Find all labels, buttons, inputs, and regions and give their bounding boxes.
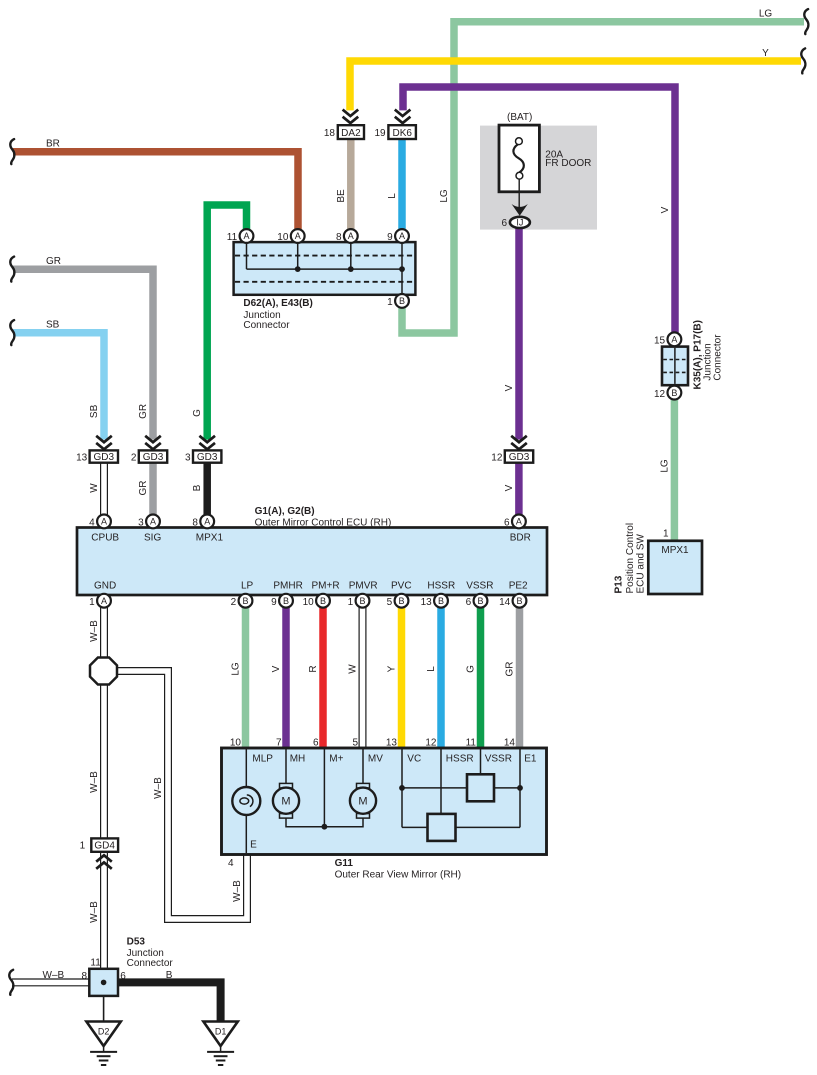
svg-text:W–B: W–B [89, 771, 100, 793]
connector GD3 #3 [185, 450, 221, 463]
svg-text:B: B [399, 296, 405, 306]
svg-text:A: A [101, 517, 107, 527]
label P13 Position Control ECU and SW [614, 523, 647, 594]
pin 3 A SIG [138, 515, 160, 529]
svg-text:MH: MH [290, 754, 306, 765]
svg-text:13: 13 [386, 738, 398, 749]
svg-text:8: 8 [192, 518, 198, 529]
svg-text:VSSR: VSSR [466, 581, 493, 592]
svg-text:V: V [271, 665, 282, 672]
arrow into GD3 #1 [96, 436, 112, 450]
svg-text:MPX1: MPX1 [196, 532, 224, 543]
svg-text:BR: BR [46, 138, 60, 149]
ground D1 [203, 1022, 237, 1066]
wire LG (K35 pin 12B to P13 MPX1) [671, 397, 679, 542]
svg-text:SIG: SIG [144, 532, 161, 543]
wire W (GD3 #1 to ECU pin 4A CPUB) [100, 463, 108, 515]
svg-text:9: 9 [271, 597, 277, 608]
svg-text:A: A [671, 335, 677, 345]
break symbol BR left [10, 139, 14, 164]
svg-text:3: 3 [138, 518, 144, 529]
svg-text:D53: D53 [127, 937, 146, 948]
svg-text:10: 10 [303, 597, 315, 608]
svg-text:E1: E1 [524, 754, 537, 765]
svg-text:Connector: Connector [243, 320, 290, 331]
svg-text:5: 5 [352, 738, 358, 749]
connector GD4 [80, 838, 118, 851]
wire MV motor to M+ node [324, 818, 363, 827]
svg-text:12: 12 [425, 738, 437, 749]
wire VC to relay1 [402, 787, 467, 789]
wire D53 to ground D2 [103, 996, 105, 1021]
svg-text:A: A [399, 231, 405, 241]
pin 1 B PMVR [348, 594, 370, 608]
svg-text:B: B [438, 596, 444, 606]
pin 11 A D62 [227, 229, 254, 243]
pin 13 B HSSR [421, 594, 448, 608]
svg-text:GND: GND [94, 581, 116, 592]
svg-text:19: 19 [374, 128, 386, 139]
svg-text:G: G [192, 409, 203, 417]
svg-text:4: 4 [228, 858, 234, 869]
pin 4 A CPUB [89, 515, 111, 529]
svg-text:MV: MV [368, 754, 383, 765]
G11 internal labels [252, 754, 536, 765]
wire M+ internal [323, 749, 325, 827]
junction connector D62(A) E43(B) [234, 242, 416, 295]
wire SB (to GD3 #1) [13, 333, 104, 440]
node VC [399, 785, 405, 791]
svg-text:LG: LG [231, 662, 242, 676]
svg-text:L: L [426, 666, 437, 672]
pin 5 B PVC [387, 594, 409, 608]
svg-text:2: 2 [231, 597, 237, 608]
svg-text:VSSR: VSSR [485, 754, 512, 765]
svg-text:5: 5 [387, 597, 393, 608]
svg-text:6: 6 [501, 218, 507, 229]
wire V (GD3 #4 to ECU pin 6A BDR) [515, 463, 523, 515]
wire LG battery feed (D62 pin 1B to top right) [402, 22, 804, 333]
wire VC internal [401, 749, 403, 827]
svg-text:Position Control: Position Control [625, 523, 636, 594]
svg-text:W–B: W–B [153, 777, 164, 799]
pin 6 B VSSR [466, 594, 488, 608]
svg-text:6: 6 [313, 738, 319, 749]
wire G (D62 pin 11A to GD3 #3) [207, 205, 246, 440]
connector GD3 #2 [131, 450, 167, 463]
svg-text:Outer Mirror Control ECU (RH): Outer Mirror Control ECU (RH) [255, 518, 392, 529]
svg-text:13: 13 [421, 597, 433, 608]
pin 12 B K35 [654, 386, 681, 400]
svg-text:B: B [477, 596, 483, 606]
wire W-B branch (octagon to G11 pin E) [104, 671, 248, 919]
svg-text:9: 9 [387, 232, 393, 243]
svg-text:LG: LG [659, 459, 670, 473]
svg-text:SB: SB [89, 404, 100, 418]
connector GD3 #4 [491, 450, 533, 463]
svg-text:B: B [283, 596, 289, 606]
svg-text:D2: D2 [98, 1027, 110, 1037]
svg-text:P13: P13 [614, 575, 625, 593]
wire B (D53 pin 6 to ground D1) [118, 982, 221, 1021]
svg-text:W: W [89, 483, 100, 493]
svg-text:V: V [660, 206, 671, 213]
svg-text:HSSR: HSSR [427, 581, 455, 592]
svg-text:18: 18 [324, 128, 336, 139]
break symbol GR left [10, 257, 14, 282]
arrow into GD3 #3 [199, 436, 215, 450]
svg-text:2: 2 [131, 453, 137, 464]
svg-text:1: 1 [387, 297, 393, 308]
relay box HSSR [428, 814, 456, 841]
svg-text:FR DOOR: FR DOOR [545, 158, 591, 169]
break symbol Y right [801, 48, 805, 73]
svg-text:E: E [250, 840, 257, 851]
wire GR (GD3 #2 to ECU pin 3A SIG) [149, 463, 157, 515]
svg-text:GD3: GD3 [197, 452, 218, 463]
svg-text:A: A [101, 596, 107, 606]
node M+ [322, 824, 328, 830]
svg-text:M: M [281, 796, 290, 808]
svg-text:CPUB: CPUB [91, 532, 119, 543]
svg-text:A: A [243, 231, 249, 241]
wire relay2 to E1 [456, 826, 521, 828]
svg-text:Connector: Connector [127, 958, 174, 969]
svg-text:3: 3 [185, 453, 191, 464]
svg-text:G11: G11 [335, 858, 354, 869]
node E1 [517, 785, 523, 791]
svg-text:MPX1: MPX1 [661, 545, 689, 556]
svg-text:SB: SB [46, 319, 60, 330]
svg-text:R: R [308, 665, 319, 672]
svg-text:GR: GR [46, 256, 61, 267]
wire GR (to GD3 #2) [13, 269, 153, 439]
pin 2 B LP [231, 594, 253, 608]
ECU G1(A) G2(B) box [77, 528, 547, 596]
wire V (IJ to GD3 #4) [515, 228, 523, 440]
svg-text:15: 15 [654, 336, 666, 347]
svg-text:B: B [516, 596, 522, 606]
wire L (DK6 to D62 pin 9A) [398, 139, 406, 229]
svg-text:W–B: W–B [232, 880, 243, 902]
svg-text:W–B: W–B [43, 970, 65, 981]
svg-text:1: 1 [80, 841, 88, 852]
arrow into GD3 #2 [145, 436, 161, 450]
svg-text:10: 10 [230, 738, 242, 749]
svg-text:1: 1 [348, 597, 354, 608]
svg-text:11: 11 [227, 232, 238, 243]
break symbol LG right [804, 9, 808, 34]
ECU internal top labels [91, 532, 531, 543]
svg-text:GR: GR [138, 404, 149, 419]
ECU P13 box MPX1 [648, 541, 702, 594]
pin 9 A D62 [387, 229, 409, 243]
connector IJ [510, 217, 530, 228]
svg-text:A: A [150, 517, 156, 527]
svg-text:HSSR: HSSR [446, 754, 474, 765]
junction connector K35(A) P17(B) [662, 347, 688, 386]
svg-text:B: B [242, 596, 248, 606]
G11 top pin numbers [230, 738, 516, 749]
svg-text:Outer Rear View Mirror (RH): Outer Rear View Mirror (RH) [335, 870, 462, 881]
ground D2 [86, 1022, 120, 1066]
relay box VSSR [467, 774, 494, 801]
svg-text:DA2: DA2 [341, 128, 361, 139]
svg-text:D62(A), E43(B): D62(A), E43(B) [243, 298, 312, 309]
wire W-B (ECU GND pin 1A down through GD4 to D53 pin 11) [100, 607, 108, 969]
svg-text:Y: Y [387, 665, 398, 672]
fuse 20A FR DOOR [499, 125, 539, 207]
label D53 [127, 937, 174, 970]
svg-text:PVC: PVC [391, 581, 412, 592]
arrow up into GD4 [96, 855, 112, 869]
svg-text:1: 1 [89, 597, 95, 608]
arrow into DK6 [395, 110, 411, 124]
svg-text:4: 4 [89, 518, 95, 529]
pin 1 A GND [89, 594, 111, 608]
svg-text:M+: M+ [329, 754, 343, 765]
wire V (DK6 to K35 pin 15A) [403, 87, 675, 333]
wire LG (ECU LP to G11 MLP) [242, 607, 250, 750]
svg-text:Connector: Connector [713, 334, 724, 381]
pin 8 A D62 [336, 229, 358, 243]
wire G (ECU VSSR to G11 VSSR) [477, 607, 485, 750]
svg-text:GD3: GD3 [509, 452, 530, 463]
wire L (ECU HSSR to G11 HSSR) [437, 607, 445, 750]
pin 6 A BDR [504, 515, 526, 529]
svg-text:PE2: PE2 [509, 581, 528, 592]
svg-text:PMHR: PMHR [273, 581, 302, 592]
junction connector D53 [89, 969, 118, 996]
svg-text:D1: D1 [215, 1027, 227, 1037]
svg-text:ECU and SW: ECU and SW [636, 533, 647, 593]
svg-text:8: 8 [81, 971, 87, 982]
break symbol SB left [10, 320, 14, 345]
arrow into DA2 [343, 110, 359, 124]
connector DK6 [388, 125, 416, 139]
wire VC to relay2 [402, 826, 428, 828]
svg-text:GR: GR [505, 662, 516, 677]
svg-text:PMVR: PMVR [349, 581, 378, 592]
wire VSSR internal [480, 749, 482, 774]
svg-text:V: V [504, 384, 515, 391]
svg-text:M: M [358, 796, 367, 808]
ECU internal bottom labels [94, 581, 528, 592]
noise filter octagon [90, 658, 117, 685]
svg-text:LG: LG [439, 189, 450, 203]
svg-text:GR: GR [138, 481, 149, 496]
G11 Outer Rear View Mirror box [222, 748, 547, 855]
svg-text:DK6: DK6 [392, 128, 412, 139]
break symbol W-B left [9, 970, 13, 995]
svg-text:W–B: W–B [89, 901, 100, 923]
svg-text:(BAT): (BAT) [507, 112, 532, 123]
svg-text:GD4: GD4 [94, 841, 115, 852]
pin 15 A K35 [654, 332, 681, 346]
svg-text:14: 14 [499, 597, 511, 608]
pin 14 B PE2 [499, 594, 526, 608]
svg-text:6: 6 [466, 597, 472, 608]
svg-text:A: A [204, 517, 210, 527]
svg-text:8: 8 [336, 232, 342, 243]
svg-text:Y: Y [762, 48, 769, 59]
svg-text:IJ: IJ [516, 218, 523, 228]
wire MLP internal [245, 749, 247, 853]
svg-text:LG: LG [759, 9, 773, 20]
svg-text:13: 13 [76, 453, 88, 464]
svg-text:1: 1 [663, 529, 669, 540]
pin 10 B PM+R [303, 594, 330, 608]
label D62(A), E43(B) Junction Connector [243, 298, 312, 331]
wire V (ECU PMHR to G11 MH) [282, 607, 290, 750]
pin 10 A D62 [277, 229, 304, 243]
svg-text:GD3: GD3 [94, 452, 115, 463]
svg-text:B: B [192, 484, 203, 491]
svg-text:14: 14 [504, 738, 516, 749]
label K35(A), P17(B) Junction Connector [693, 320, 724, 389]
connector DA2 [338, 125, 364, 139]
svg-text:PM+R: PM+R [312, 581, 340, 592]
svg-text:BDR: BDR [510, 532, 531, 543]
svg-text:G1(A), G2(B): G1(A), G2(B) [255, 506, 315, 517]
wire W-B (left break to D53 pin 8) [12, 978, 89, 986]
arrow into GD3 #4 [511, 436, 527, 450]
wire relay1 to E1 node [494, 787, 520, 789]
svg-text:A: A [295, 231, 301, 241]
wire MH motor to M+ node [286, 818, 324, 827]
svg-text:VC: VC [407, 754, 421, 765]
pin 8 A MPX1 [192, 515, 214, 529]
wire R (ECU PM+R to G11 M+) [319, 607, 327, 750]
wire W (ECU PMVR to G11 MV) [359, 607, 367, 750]
wire BR (to D62 pin 10A) [13, 152, 298, 230]
motor MH [273, 783, 299, 818]
wire E1 internal [519, 749, 521, 827]
svg-text:B: B [320, 596, 326, 606]
svg-text:12: 12 [654, 389, 666, 400]
wire GR (ECU PE2 to G11 E1) [516, 607, 524, 750]
wire Y (to DA2) [350, 61, 801, 110]
wire BE (DA2 to D62 pin 8A) [347, 139, 355, 229]
svg-text:A: A [516, 517, 522, 527]
motor MV [350, 783, 376, 818]
connector GD3 #1 [76, 450, 118, 463]
wire MH internal [285, 749, 287, 784]
wire HSSR internal [440, 749, 442, 814]
svg-text:G: G [466, 665, 477, 673]
svg-text:11: 11 [466, 738, 477, 749]
svg-text:10: 10 [277, 232, 289, 243]
svg-text:B: B [166, 970, 173, 981]
svg-text:7: 7 [276, 738, 282, 749]
svg-text:12: 12 [491, 453, 503, 464]
svg-text:A: A [348, 231, 354, 241]
arrow into IJ [512, 204, 528, 216]
svg-text:B: B [671, 388, 677, 398]
svg-text:6: 6 [120, 971, 126, 982]
svg-text:W–B: W–B [89, 620, 100, 642]
svg-text:6: 6 [504, 518, 510, 529]
svg-text:MLP: MLP [252, 754, 273, 765]
svg-text:GD3: GD3 [143, 452, 164, 463]
pin 1 B D62 [387, 294, 409, 308]
svg-text:LP: LP [241, 581, 254, 592]
svg-text:B: B [398, 596, 404, 606]
fuse block background [480, 126, 597, 230]
svg-text:11: 11 [90, 958, 101, 969]
lamp MLP [232, 787, 260, 815]
wire MV internal [362, 749, 364, 784]
svg-text:B: B [359, 596, 365, 606]
svg-text:V: V [504, 484, 515, 491]
wire Y (ECU PVC to G11 VC) [398, 607, 406, 750]
svg-text:BE: BE [336, 189, 347, 203]
wire B (GD3 #3 to ECU pin 8A MPX1) [203, 463, 211, 515]
pin 9 B PMHR [271, 594, 293, 608]
svg-text:W: W [348, 664, 359, 674]
svg-text:L: L [387, 193, 398, 199]
